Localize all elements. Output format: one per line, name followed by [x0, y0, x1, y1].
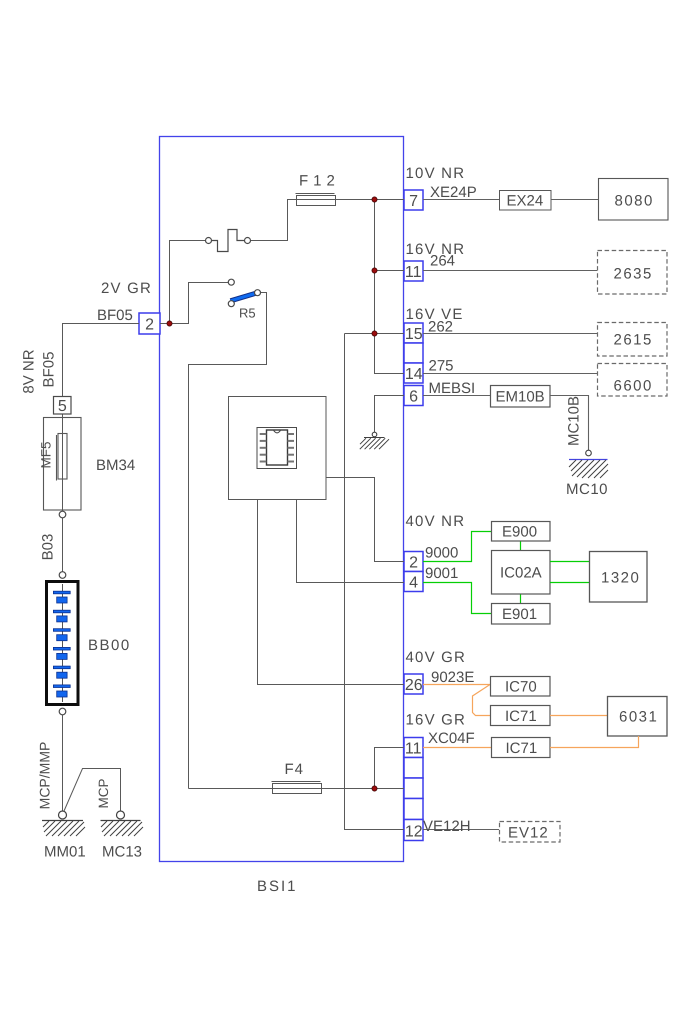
- wire pin 6 to internal ground: [375, 396, 405, 433]
- pin 6: [404, 386, 423, 406]
- pin 15: [404, 323, 423, 343]
- wire pin26 to IC70 (orange): [423, 684, 490, 686]
- svg-text:F4: F4: [285, 761, 305, 778]
- junction node pin 11: [372, 268, 377, 273]
- pin 4: [404, 572, 423, 592]
- svg-text:275: 275: [429, 358, 454, 375]
- wire IC71 to 6031 (orange): [550, 715, 607, 717]
- fuse F12: [296, 194, 336, 206]
- svg-text:MCP: MCP: [96, 779, 111, 809]
- svg-text:10V NR: 10V NR: [406, 165, 466, 182]
- svg-text:BSI1: BSI1: [257, 878, 298, 895]
- relay box IC71 lower: [492, 738, 551, 758]
- svg-text:2: 2: [409, 555, 418, 572]
- svg-text:40V GR: 40V GR: [406, 649, 467, 666]
- wire EX24 to 8080: [551, 199, 598, 201]
- pin 2 left: [139, 313, 160, 334]
- svg-text:E901: E901: [502, 606, 537, 623]
- empty pin box 1: [404, 758, 423, 779]
- wire pin14 to 6600: [423, 373, 597, 375]
- wire pin15 to 2615: [423, 333, 597, 335]
- wire IC71 lower to 6031 (orange): [550, 736, 639, 748]
- wire pin11 lower to IC71 (orange): [423, 747, 491, 749]
- relay box EM10B: [491, 386, 551, 408]
- svg-text:262: 262: [428, 319, 453, 336]
- pin 7: [404, 190, 423, 210]
- svg-text:MC10B: MC10B: [566, 396, 583, 446]
- connector circle above battery: [59, 572, 66, 579]
- switch R5: [228, 279, 260, 307]
- internal ground symbol: [360, 432, 389, 449]
- wire B03 connector link: [62, 518, 64, 572]
- wire MC13 branch: [64, 769, 121, 812]
- svg-text:EM10B: EM10B: [496, 389, 545, 406]
- wire junction up to ignition switch: [170, 241, 206, 324]
- wire bus to pin 11: [375, 270, 405, 272]
- wire CPU to pin 2: [326, 478, 404, 562]
- svg-text:MF5: MF5: [39, 442, 54, 469]
- wire pin12 to EV12: [423, 829, 499, 831]
- wire battery to ground MM01: [62, 715, 64, 811]
- wire F12 to pin 7: [296, 199, 404, 201]
- svg-text:9000: 9000: [425, 544, 458, 561]
- wire CPU to pin 26: [258, 500, 405, 685]
- wire E900 to IC02A (green): [520, 542, 522, 551]
- svg-text:E900: E900: [502, 523, 537, 540]
- relay box IC70: [491, 677, 551, 697]
- svg-text:MEBSI: MEBSI: [429, 380, 476, 397]
- svg-text:2: 2: [145, 317, 154, 334]
- empty pin box 3: [404, 799, 423, 820]
- connector circle below BM34: [59, 511, 66, 518]
- wire R5 right terminal down to F4: [189, 293, 267, 789]
- battery BB00: [47, 582, 79, 705]
- wire branch to IC71 upper (orange): [473, 685, 491, 716]
- wire IC02A to E901 (green): [520, 595, 522, 604]
- svg-text:IC02A: IC02A: [500, 565, 542, 582]
- fuse MF5: [57, 434, 68, 481]
- svg-text:R5: R5: [239, 306, 256, 321]
- svg-text:26: 26: [405, 677, 423, 694]
- supply bus vertical: [375, 200, 405, 374]
- wire pin2 to E900 (green): [423, 532, 491, 562]
- svg-text:VE12H: VE12H: [423, 818, 471, 835]
- wire pin2-left out to BM34: [63, 324, 140, 397]
- junction node pin2: [167, 321, 172, 326]
- svg-text:11: 11: [405, 741, 422, 758]
- svg-text:F12: F12: [299, 173, 340, 190]
- svg-text:BB00: BB00: [88, 637, 131, 654]
- svg-text:15: 15: [405, 326, 423, 343]
- svg-text:1320: 1320: [601, 570, 640, 587]
- svg-text:9023E: 9023E: [431, 669, 474, 686]
- svg-text:XC04F: XC04F: [428, 730, 475, 747]
- svg-text:MC10: MC10: [566, 481, 608, 498]
- svg-text:14: 14: [405, 366, 423, 383]
- component 8080: [599, 179, 669, 221]
- component 1320: [590, 552, 648, 603]
- wire pin11 to 2635: [423, 270, 597, 272]
- svg-text:16V GR: 16V GR: [406, 712, 467, 729]
- svg-text:40V NR: 40V NR: [406, 513, 466, 530]
- pin 12: [404, 820, 423, 841]
- wire CPU to pin 4: [297, 500, 405, 583]
- svg-text:BF05: BF05: [41, 352, 58, 388]
- svg-text:MCP/MMP: MCP/MMP: [37, 742, 53, 810]
- relay box IC71 upper: [491, 706, 551, 726]
- empty pin box below 15: [404, 343, 423, 363]
- svg-text:B03: B03: [40, 534, 57, 561]
- svg-text:11: 11: [405, 264, 422, 281]
- svg-text:12: 12: [405, 824, 423, 841]
- CPU box: [229, 397, 327, 500]
- svg-text:EV12: EV12: [508, 824, 549, 841]
- junction node pin 15: [372, 331, 377, 336]
- wire EM10B to ground MC10: [550, 396, 589, 451]
- svg-text:MC13: MC13: [102, 844, 142, 861]
- svg-text:XE24P: XE24P: [430, 184, 477, 201]
- wire branch F4 junction up to pin 11 lower: [375, 748, 405, 789]
- svg-text:264: 264: [430, 253, 455, 270]
- ground MC13: [101, 811, 144, 836]
- ignition switch contact: [206, 230, 251, 252]
- junction node F12/pin7: [372, 197, 377, 202]
- sensor box E901: [492, 604, 551, 625]
- svg-text:9001: 9001: [425, 565, 458, 582]
- pin 14: [404, 363, 423, 383]
- wire pin7 to EX24: [423, 199, 499, 201]
- ground MC10: [569, 450, 608, 478]
- svg-text:5: 5: [58, 398, 67, 415]
- BSI1 unit box: [160, 137, 404, 862]
- connector circle below battery: [59, 708, 66, 715]
- pin 2: [404, 552, 423, 572]
- svg-text:MM01: MM01: [44, 844, 86, 861]
- svg-text:2615: 2615: [614, 331, 653, 348]
- component 6600 (dashed): [598, 364, 668, 397]
- pin 26: [404, 674, 423, 694]
- svg-text:2635: 2635: [614, 265, 653, 282]
- wire ignition switch to fuse F12: [251, 200, 297, 241]
- wire pin4 to E901 (green): [423, 583, 491, 614]
- relay box EX24: [500, 191, 552, 211]
- svg-text:BM34: BM34: [96, 457, 135, 474]
- component 2635 (dashed): [598, 251, 668, 295]
- svg-text:EX24: EX24: [507, 192, 544, 209]
- wire pin6 to EM10B: [423, 395, 490, 397]
- pin 11: [404, 261, 423, 281]
- svg-text:BF05: BF05: [97, 307, 133, 324]
- svg-text:8V NR: 8V NR: [21, 349, 38, 393]
- component 2615 (dashed): [598, 323, 668, 357]
- fuse F4: [272, 782, 322, 794]
- wires IC02A to 1320 (green): [550, 562, 589, 583]
- component 6031: [608, 697, 668, 737]
- control box IC02A: [492, 551, 551, 595]
- wire F4 rail to BSI edge: [189, 788, 405, 790]
- svg-text:6600: 6600: [614, 377, 653, 394]
- pin 11 lower: [404, 738, 423, 758]
- sensor box E900: [492, 522, 551, 542]
- wire pin2-left to junction: [160, 323, 170, 325]
- internal node line to pin 12: [345, 334, 405, 830]
- svg-text:IC71: IC71: [506, 740, 538, 757]
- junction node F4: [372, 786, 377, 791]
- svg-text:7: 7: [409, 193, 418, 210]
- wire junction to R5: [170, 283, 229, 324]
- svg-text:8080: 8080: [615, 192, 654, 209]
- pin 5 box BM34: [54, 397, 72, 415]
- wire node line to pin 15: [345, 333, 405, 335]
- microcontroller chip: [257, 428, 297, 469]
- svg-text:IC71: IC71: [505, 708, 537, 725]
- svg-text:6031: 6031: [619, 709, 658, 726]
- wire through BM34: [62, 414, 64, 511]
- ground MM01: [42, 811, 85, 836]
- svg-text:4: 4: [409, 575, 418, 592]
- fuse holder BM34: [44, 418, 82, 511]
- svg-text:6: 6: [409, 389, 418, 406]
- svg-text:2V GR: 2V GR: [101, 280, 152, 297]
- svg-text:IC70: IC70: [505, 678, 537, 695]
- empty pin box 2: [404, 778, 423, 799]
- component EV12 (dashed): [500, 822, 561, 843]
